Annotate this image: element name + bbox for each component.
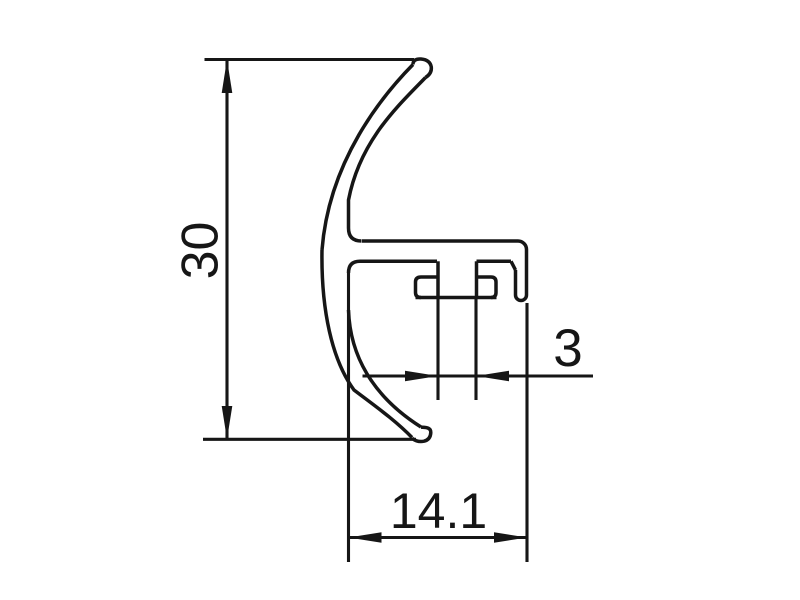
arrow right (dim 3 left) [405, 371, 438, 382]
dim 14.1 right extension line [525, 303, 528, 562]
dim 3 left extension line [436, 298, 439, 401]
profile top tip cap [413, 59, 431, 78]
bottom tip cap [412, 427, 431, 441]
profile upper horn inner curve into arm top edge [349, 78, 426, 242]
right square hook [477, 277, 496, 298]
svg-text:3: 3 [553, 319, 582, 378]
arrow right (dim 14.1 right end) [494, 532, 527, 543]
lower horn inner curve [349, 310, 422, 427]
arrow left (dim 14.1 left end) [349, 532, 382, 543]
left leg [436, 261, 440, 297]
arrow up (dim 30 top) [222, 60, 233, 94]
profile outer curve lower half [322, 250, 412, 438]
arm top edge [362, 239, 518, 243]
dim 30 vertical dimension line [225, 60, 228, 440]
arm hook chamfer to underside [511, 261, 516, 270]
arrow left (dim 3 right) [476, 371, 509, 382]
arrow down (dim 30 bottom) [222, 406, 233, 439]
right leg [475, 261, 479, 297]
stem left fillet [349, 261, 361, 273]
arm hook inner edge [514, 270, 518, 295]
dim 30 top extension line [205, 58, 415, 61]
dim 3 dimension line [363, 374, 594, 377]
dim 3 right extension line [474, 298, 477, 401]
arm right outer edge [525, 250, 529, 296]
dim 30 bottom extension line [203, 438, 416, 441]
left square hook [416, 277, 439, 298]
dim 14.1 dimension line [349, 536, 528, 539]
profile outer curve upper half (crescent left edge) [322, 65, 413, 251]
svg-text:30: 30 [172, 222, 230, 280]
arm underside right segment [477, 260, 512, 264]
svg-text:14.1: 14.1 [390, 483, 487, 539]
arm underside left segment [360, 260, 437, 264]
arm right corner fillet [518, 241, 527, 250]
bridge bottom line under slot [416, 296, 497, 300]
arm hook U-turn bottom [516, 295, 527, 301]
dim 14.1 left extension line [347, 273, 350, 562]
